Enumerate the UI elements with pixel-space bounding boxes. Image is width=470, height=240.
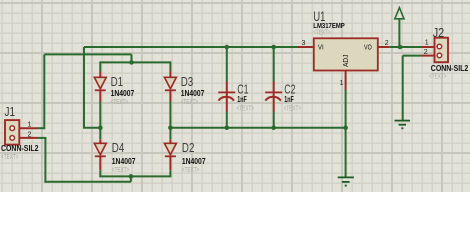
node C2 bottom junction dot	[271, 125, 276, 130]
J1 pin2 stub	[14, 137, 37, 139]
svg-text:D3: D3	[181, 74, 194, 89]
wire D4 top lead	[99, 128, 101, 140]
svg-text:<TEXT>: <TEXT>	[429, 74, 447, 81]
node C1 top junction dot	[225, 45, 230, 50]
svg-text:D1: D1	[111, 74, 124, 89]
connector J2 CONN-SIL2	[435, 38, 449, 63]
svg-text:ADJ: ADJ	[343, 55, 350, 68]
svg-text:2: 2	[385, 40, 389, 47]
wire AC2 bottom horizontal	[44, 181, 130, 183]
diode D1 1N4007	[94, 72, 106, 102]
wire D3 cathode down to ground rail	[169, 101, 171, 128]
wire C2 bottom lead	[273, 112, 275, 128]
power terminal arrow	[395, 8, 404, 19]
U1 ADJ pin stub (pin 1)	[345, 70, 347, 90]
U1 VI pin stub (pin 3)	[298, 46, 314, 48]
ground right	[395, 121, 411, 129]
wire D2 bottom lead	[169, 170, 171, 176]
wire left vertical of VI net	[83, 47, 85, 128]
svg-text:<TEXT>: <TEXT>	[182, 167, 200, 174]
wire D4 bottom lead	[99, 170, 101, 176]
wire AC1 drop	[131, 54, 133, 62]
svg-text:<TEXT>: <TEXT>	[1, 154, 19, 161]
wire C2 top lead	[273, 46, 275, 82]
wire ground rail	[170, 127, 345, 129]
svg-text:1N4007: 1N4007	[182, 157, 206, 166]
svg-text:<TEXT>: <TEXT>	[313, 29, 331, 36]
wire J1 pin2 to corner	[37, 137, 46, 139]
svg-text:D4: D4	[112, 140, 125, 155]
wire D4 cathode to D2 cathode	[99, 175, 171, 177]
wire D1 anode to D3 anode	[100, 61, 170, 63]
svg-text:D2: D2	[182, 140, 195, 155]
svg-text:1: 1	[340, 80, 344, 87]
node VO junction dot	[398, 45, 403, 50]
svg-text:1nF: 1nF	[284, 95, 294, 104]
svg-text:2: 2	[28, 131, 32, 138]
J1 pin1 stub	[14, 127, 37, 129]
wire C1 bottom lead	[226, 112, 228, 128]
wire J1 pin1 to corner	[37, 127, 44, 129]
svg-text:1: 1	[425, 40, 429, 47]
svg-text:VO: VO	[364, 45, 372, 52]
svg-text:1N4007: 1N4007	[181, 89, 205, 98]
wire D1 top lead	[99, 61, 101, 71]
diode D3 1N4007	[164, 71, 176, 101]
svg-text:J1: J1	[5, 104, 16, 119]
wire VO to J2 pin1	[389, 46, 421, 48]
node AC1 junction dot	[129, 60, 134, 65]
wire D1 cathode down to node	[99, 101, 101, 128]
wire AC2 drop	[130, 176, 132, 181]
wire AC1 horizontal rail	[44, 53, 131, 55]
node C1 bottom junction dot	[225, 125, 230, 130]
wire power terminal vertical	[398, 19, 400, 46]
wire top rail to U1 VI	[84, 46, 298, 48]
svg-text:<TEXT>: <TEXT>	[181, 99, 199, 106]
svg-text:1nF: 1nF	[237, 95, 247, 104]
wire ADJ down to ground	[345, 90, 347, 177]
svg-text:1: 1	[28, 122, 32, 129]
node AC2 junction dot	[129, 174, 134, 179]
wire J2 pin2 horizontal	[403, 55, 422, 57]
svg-text:2: 2	[424, 49, 428, 56]
J2 pin2 stub	[422, 55, 438, 57]
ground bottom	[338, 177, 354, 185]
diode D2 1N4007	[164, 139, 176, 170]
diode D4 1N4007	[94, 139, 106, 170]
svg-text:1N4007: 1N4007	[112, 157, 136, 166]
svg-text:<TEXT>: <TEXT>	[112, 167, 130, 174]
node VI junction dot	[98, 125, 103, 130]
svg-text:<TEXT>: <TEXT>	[284, 105, 302, 112]
U1 VO pin stub (pin 2)	[378, 46, 390, 48]
svg-text:3: 3	[302, 40, 306, 47]
wire stub to D1-D4 node	[83, 127, 100, 129]
node ADJ rail junction dot	[343, 125, 348, 130]
svg-text:<TEXT>: <TEXT>	[237, 105, 255, 112]
svg-text:CONN-SIL2: CONN-SIL2	[1, 144, 39, 153]
svg-text:CONN-SIL2: CONN-SIL2	[431, 64, 469, 73]
wire J1 pin2 vertical down	[44, 138, 46, 183]
wire D3 top lead	[169, 61, 171, 71]
connector J1 CONN-SIL2	[5, 120, 19, 145]
op-amp U1 body LM317EMP	[314, 38, 378, 70]
node C2 top junction dot	[271, 45, 276, 50]
capacitor C1	[218, 82, 235, 112]
svg-text:J2: J2	[433, 25, 445, 40]
J2 pin1 stub	[422, 46, 438, 48]
svg-text:VI: VI	[318, 45, 324, 52]
wire D2 top lead	[169, 128, 171, 140]
svg-text:<TEXT>: <TEXT>	[111, 99, 129, 106]
wire J1 pin1 vertical up	[43, 54, 45, 129]
node ground rail junction at D3-D2	[168, 125, 173, 130]
wire C1 top lead	[226, 46, 228, 82]
svg-text:1N4007: 1N4007	[111, 89, 135, 98]
grid background	[0, 0, 470, 192]
capacitor C2	[265, 82, 282, 112]
wire J2 pin2 down to ground	[402, 56, 404, 121]
